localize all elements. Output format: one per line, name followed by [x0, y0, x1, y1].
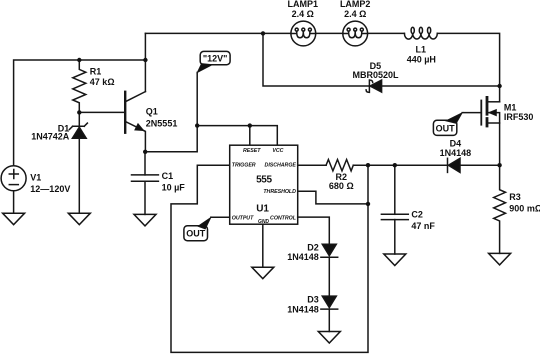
wire: DISCHARGE to R2	[298, 164, 326, 166]
wire: LAMP2 to L1	[368, 32, 405, 34]
voltage source V1	[1, 166, 26, 213]
wire: 12V rail to RESET and VCC	[197, 126, 277, 146]
svg-text:TRIGGER: TRIGGER	[232, 163, 256, 169]
node: emitter / C1 junction	[143, 150, 147, 154]
resistor R3	[494, 165, 506, 253]
ground (C2)	[384, 254, 406, 266]
inductor L1	[404, 27, 437, 39]
wire: D5 branch from top rail	[263, 33, 369, 86]
svg-text:LAMP1: LAMP1	[288, 0, 319, 9]
ground (D1)	[68, 213, 90, 225]
svg-text:10 µF: 10 µF	[162, 182, 186, 192]
wire: battery positive to top-left corner	[14, 60, 146, 166]
node: RESET junction	[248, 123, 252, 127]
wire: LAMP1 to LAMP2	[316, 32, 343, 34]
node: D5 tap on top rail	[261, 31, 265, 35]
wire: R2 right junction riser	[367, 165, 369, 204]
svg-text:1N4148: 1N4148	[287, 252, 319, 262]
ground (C1)	[134, 214, 156, 226]
wire: THRESHOLD jog	[298, 191, 368, 204]
wire: base wire R1 to Q1	[79, 111, 125, 113]
zener diode D1	[69, 112, 87, 213]
wire: D2 to D3	[328, 257, 330, 296]
svg-text:U1: U1	[256, 204, 269, 215]
ground (D3)	[318, 332, 340, 344]
diode D2	[321, 244, 338, 257]
svg-text:Q1: Q1	[146, 107, 158, 117]
node: MOSFET source junction	[497, 163, 501, 167]
svg-text:L1: L1	[416, 44, 427, 54]
555 timer U1	[230, 145, 298, 224]
svg-text:900 mΩ: 900 mΩ	[509, 204, 540, 214]
svg-text:RESET: RESET	[243, 148, 261, 154]
svg-text:R1: R1	[90, 67, 102, 77]
wire: CONTROL to D2	[298, 217, 330, 244]
node: collector riser junction	[143, 58, 147, 62]
svg-text:OUT: OUT	[186, 229, 206, 239]
transistor Q1	[125, 92, 145, 152]
svg-text:"12V": "12V"	[203, 54, 228, 64]
node: 12V junction	[195, 123, 199, 127]
svg-text:555: 555	[256, 174, 272, 185]
node: C2 top junction	[393, 163, 397, 167]
svg-text:440 µH: 440 µH	[407, 54, 436, 64]
ground (R3)	[489, 253, 511, 265]
diode D4	[448, 158, 461, 172]
ground (V1)	[3, 213, 25, 225]
wire: R2 to D4 to MOSFET source junction	[353, 164, 499, 166]
diode D3	[321, 296, 338, 309]
svg-text:M1: M1	[504, 103, 517, 113]
wire: emitter to 12V riser	[145, 126, 197, 152]
svg-text:V1: V1	[30, 173, 41, 183]
svg-text:GND: GND	[258, 219, 269, 225]
net flag OUT (gate)	[433, 113, 462, 136]
resistor R1	[73, 60, 86, 112]
wire: D5 to right rail	[382, 85, 500, 87]
net flag "12V"	[197, 51, 230, 72]
svg-text:2N5551: 2N5551	[146, 118, 178, 128]
svg-text:2.4 Ω: 2.4 Ω	[292, 9, 314, 19]
svg-text:CONTROL: CONTROL	[270, 215, 296, 221]
wire: OUTPUT pin stub	[211, 216, 230, 218]
node: R1 top junction	[77, 58, 81, 62]
svg-text:47 kΩ: 47 kΩ	[90, 77, 115, 87]
wire: L1 to right rail	[437, 33, 499, 101]
svg-text:VCC: VCC	[272, 148, 283, 154]
ground (555 GND)	[252, 267, 274, 279]
svg-text:MBR0520L: MBR0520L	[352, 70, 399, 80]
schottky diode D5	[366, 80, 382, 92]
svg-text:D3: D3	[307, 295, 319, 305]
capacitor C1	[132, 152, 159, 215]
svg-text:C2: C2	[411, 210, 423, 220]
node: THRESHOLD junction	[366, 202, 370, 206]
svg-text:1N4742A: 1N4742A	[31, 131, 70, 141]
svg-text:D4: D4	[450, 138, 462, 148]
svg-text:OUTPUT: OUTPUT	[232, 215, 254, 221]
svg-text:1N4148: 1N4148	[440, 148, 472, 158]
svg-text:DISCHARGE: DISCHARGE	[265, 163, 297, 169]
lamp LAMP2	[343, 21, 368, 46]
svg-text:2.4 Ω: 2.4 Ω	[344, 9, 366, 19]
node: R2 right junction	[366, 163, 370, 167]
resistor R2	[326, 160, 353, 171]
node: D5 right junction	[497, 84, 501, 88]
svg-text:47 nF: 47 nF	[411, 221, 435, 231]
svg-text:D2: D2	[307, 242, 319, 252]
svg-text:LAMP2: LAMP2	[340, 0, 371, 9]
wire: GND pin stub	[262, 224, 264, 267]
wire: top rail to LAMP1	[145, 32, 291, 34]
node: base junction	[77, 110, 81, 114]
svg-text:THRESHOLD: THRESHOLD	[263, 189, 296, 195]
net flag OUT (555 output)	[184, 217, 211, 240]
lamp LAMP1	[291, 21, 316, 46]
svg-text:12—120V: 12—120V	[30, 184, 70, 194]
wire: 12V flag stem	[196, 72, 198, 125]
svg-text:IRF530: IRF530	[504, 112, 534, 122]
svg-text:1N4148: 1N4148	[287, 305, 319, 315]
wire: D3 to ground	[328, 309, 330, 331]
wire: TRIGGER loop (left and bottom)	[171, 165, 368, 352]
svg-text:C1: C1	[162, 171, 174, 181]
svg-text:OUT: OUT	[436, 123, 456, 133]
svg-text:R3: R3	[509, 192, 521, 202]
wire: Q1 collector riser	[144, 33, 146, 91]
capacitor C2	[381, 165, 408, 254]
svg-text:680 Ω: 680 Ω	[329, 181, 354, 191]
mosfet M1	[462, 97, 499, 165]
